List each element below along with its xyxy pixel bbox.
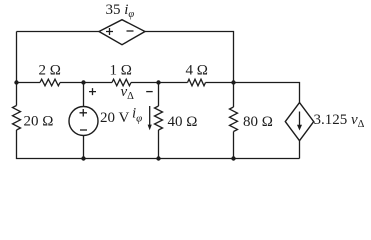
svg-text:20 V: 20 V [100, 110, 129, 126]
svg-text:80 Ω: 80 Ω [243, 114, 273, 130]
svg-text:1 Ω: 1 Ω [110, 62, 132, 78]
svg-text:iφ: iφ [132, 106, 142, 125]
svg-text:40 Ω: 40 Ω [168, 114, 198, 130]
svg-text:20 Ω: 20 Ω [24, 114, 54, 130]
svg-text:4 Ω: 4 Ω [186, 62, 208, 78]
svg-text:vΔ: vΔ [121, 84, 135, 102]
svg-text:35 iφ: 35 iφ [106, 2, 135, 20]
svg-text:2 Ω: 2 Ω [39, 62, 61, 78]
svg-text:3.125 vΔ: 3.125 vΔ [314, 112, 365, 130]
